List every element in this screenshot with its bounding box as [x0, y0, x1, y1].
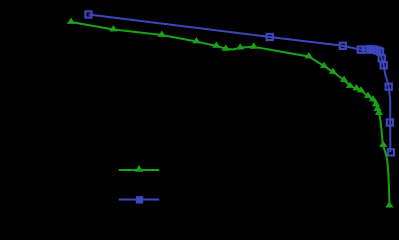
- legend: blue entry line: [119, 199, 160, 201]
- green curve triangle markers: [67, 18, 394, 208]
- blue curve line: [89, 15, 391, 153]
- blue curve open-square markers: [85, 11, 394, 155]
- legend: green triangle marker: [135, 165, 143, 172]
- legend: green entry line: [119, 169, 160, 171]
- legend: blue square marker: [136, 196, 143, 203]
- green curve line: [71, 22, 389, 204]
